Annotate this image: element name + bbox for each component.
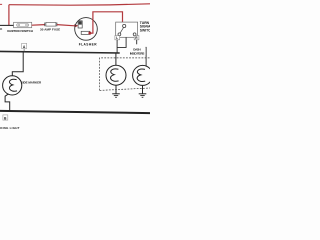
svg-text:FLASHER: FLASHER xyxy=(79,42,97,46)
connector tag A xyxy=(23,49,25,52)
dash indicator bulb right xyxy=(133,65,153,85)
flasher inner terminal block xyxy=(78,21,82,28)
side marker filament xyxy=(9,79,17,91)
ground left bulb xyxy=(115,85,117,93)
svg-text:INDICATORS: INDICATORS xyxy=(130,52,145,56)
fuse body xyxy=(46,22,56,26)
terminal tag R xyxy=(134,36,139,40)
svg-text:SIDE MARKER: SIDE MARKER xyxy=(21,81,42,85)
switch lever xyxy=(120,27,124,33)
switch R terminal xyxy=(133,33,136,36)
wire: L terminal drop xyxy=(116,40,118,53)
side marker bulb xyxy=(3,76,22,95)
turn signal switch box xyxy=(116,22,138,37)
svg-text:PARKING LIGHT: PARKING LIGHT xyxy=(0,126,20,130)
wire: red flasher output up and over to switch xyxy=(90,12,122,33)
dash indicator bulb left xyxy=(106,65,126,85)
flasher circle xyxy=(75,18,98,41)
ignition switch terminal circles xyxy=(18,24,20,26)
wire: R terminal drop and run to right bulb xyxy=(137,40,146,67)
svg-text:CK: CK xyxy=(0,27,2,31)
wire: side marker to parking light bus xyxy=(5,94,10,112)
wire: red stub cut at left edge xyxy=(0,3,2,5)
wire: red drop from bus to ignition switch xyxy=(8,5,10,26)
wire: black stub from left edge into ignition switch xyxy=(0,24,14,26)
wire: battery feed red bus, top xyxy=(9,4,150,5)
dash indicators dashed enclosure xyxy=(100,58,150,91)
svg-text:IGNITION SWITCH: IGNITION SWITCH xyxy=(7,29,33,33)
switch top terminal xyxy=(123,24,126,27)
left bulb filament xyxy=(111,69,119,81)
wire: red from fuse to flasher xyxy=(57,25,75,26)
switch L terminal xyxy=(118,33,121,36)
svg-text:SWITCH: SWITCH xyxy=(140,28,150,32)
right bulb filament xyxy=(137,69,145,81)
terminal tag L xyxy=(115,36,120,40)
svg-text:L: L xyxy=(116,36,118,40)
label box DASH INDICATORS xyxy=(129,44,146,55)
red terminal dot xyxy=(88,32,91,35)
ignition switch box xyxy=(14,22,32,27)
wire: left feed bus to parking lamps xyxy=(0,51,120,53)
wire: switch centre tap drop xyxy=(117,37,126,47)
wire: parking light bus, bottom xyxy=(0,111,150,113)
ground right bulb xyxy=(142,85,144,93)
connector tag B xyxy=(3,115,8,120)
red arrowhead into flasher xyxy=(74,24,78,27)
flasher inner lower contact xyxy=(81,31,90,34)
wire: red from ignition switch to fuse xyxy=(32,24,45,27)
svg-text:30 AMP FUSE: 30 AMP FUSE xyxy=(40,27,60,31)
ignition switch slot symbol xyxy=(17,24,29,27)
wire: side marker feed xyxy=(12,52,23,76)
wire: left dash bulb feed xyxy=(115,53,117,65)
fuse F1 30A: end caps xyxy=(44,23,46,27)
